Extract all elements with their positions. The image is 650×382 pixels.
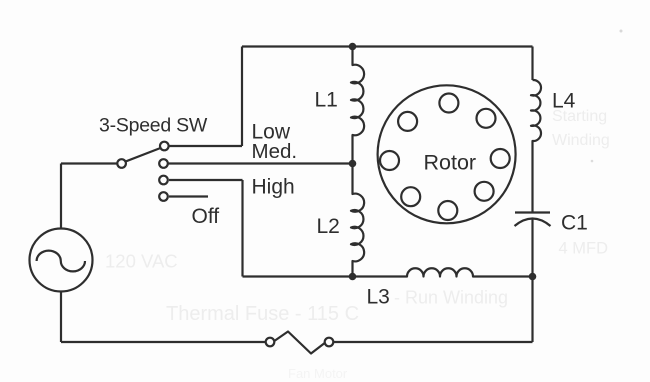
svg-text:L2: L2: [317, 215, 340, 238]
wire high riser: [241, 180, 243, 277]
inductor L2 coil: [351, 164, 364, 277]
speck top right: [620, 30, 623, 33]
wire source top: [60, 164, 62, 229]
rotor bar circle 4 (lower-right): [475, 182, 494, 201]
rotor bar circle 6 (lower-left): [401, 187, 420, 206]
rotor bar circle 3 (right): [491, 149, 510, 168]
svg-text:Med.: Med.: [252, 140, 298, 163]
svg-text:Thermal Fuse - 115 C: Thermal Fuse - 115 C: [166, 303, 359, 325]
wire high to bottom node: [243, 275, 353, 277]
wire right riser: [531, 277, 533, 343]
wire low riser: [241, 47, 243, 147]
node bottom-right junction (L3/C1): [529, 273, 537, 281]
switch contact Med: [159, 159, 168, 168]
rotor bar circle 2 (upper-right): [477, 109, 496, 128]
node top junction (L1 top / top rail): [349, 43, 357, 51]
svg-text:Winding: Winding: [552, 132, 610, 149]
node mid junction (L1/L2 junction): [349, 160, 357, 168]
wire med tap: [169, 162, 353, 164]
rotor outer circle: [378, 85, 516, 223]
rotor bar circle 5 (bottom): [438, 201, 457, 220]
speck right: [591, 160, 594, 163]
rotor bar circle 7 (left): [380, 151, 399, 170]
node bottom-left junction (L2/L3/high): [349, 273, 357, 281]
thermal fuse F1 left terminal: [266, 338, 275, 347]
switch arm: [125, 148, 161, 162]
wire source bottom: [60, 292, 62, 343]
svg-text:- Run Winding: - Run Winding: [394, 288, 508, 308]
thermal fuse F1 element: [274, 332, 324, 354]
switch contact Off: [159, 192, 168, 201]
inductor L1 coil: [351, 47, 364, 164]
svg-text:Fan Motor: Fan Motor: [288, 366, 348, 381]
wire low tap: [169, 145, 242, 147]
wire high tap: [169, 179, 243, 181]
switch contact Low: [160, 142, 169, 151]
wire top rail: [242, 45, 533, 47]
wire bottom rail left: [61, 341, 266, 343]
capacitor C1 top plate: [515, 211, 550, 213]
svg-text:C1: C1: [561, 212, 588, 235]
svg-text:3-Speed SW: 3-Speed SW: [99, 115, 208, 137]
svg-text:L1: L1: [315, 89, 338, 112]
AC source sine wave: [37, 251, 85, 272]
wire left rail to switch common: [61, 162, 117, 164]
rotor bar circle 1 (top): [439, 94, 458, 113]
svg-text:L3: L3: [367, 286, 390, 309]
inductor L4 coil: [531, 80, 541, 213]
wire C1 bottom lead: [531, 219, 533, 277]
svg-text:4 MFD: 4 MFD: [559, 240, 609, 258]
svg-text:Rotor: Rotor: [424, 151, 477, 175]
rotor bar circle 8 (upper-left): [398, 112, 417, 131]
switch contact High: [159, 176, 168, 185]
svg-text:120 VAC: 120 VAC: [105, 251, 178, 272]
svg-text:High: High: [252, 176, 295, 199]
svg-text:Off: Off: [192, 205, 220, 228]
AC source V1 circle: [30, 229, 93, 292]
svg-text:Starting: Starting: [552, 108, 607, 125]
thermal fuse F1 right terminal: [325, 338, 334, 347]
wire bottom rail right: [334, 341, 533, 343]
wire L4 top lead: [531, 47, 533, 81]
inductor L3 coil: [353, 268, 533, 276]
wire off stub: [169, 195, 208, 197]
switch SW1 3-Speed SW common contact: [117, 159, 126, 168]
capacitor C1 curved plate: [515, 219, 551, 227]
